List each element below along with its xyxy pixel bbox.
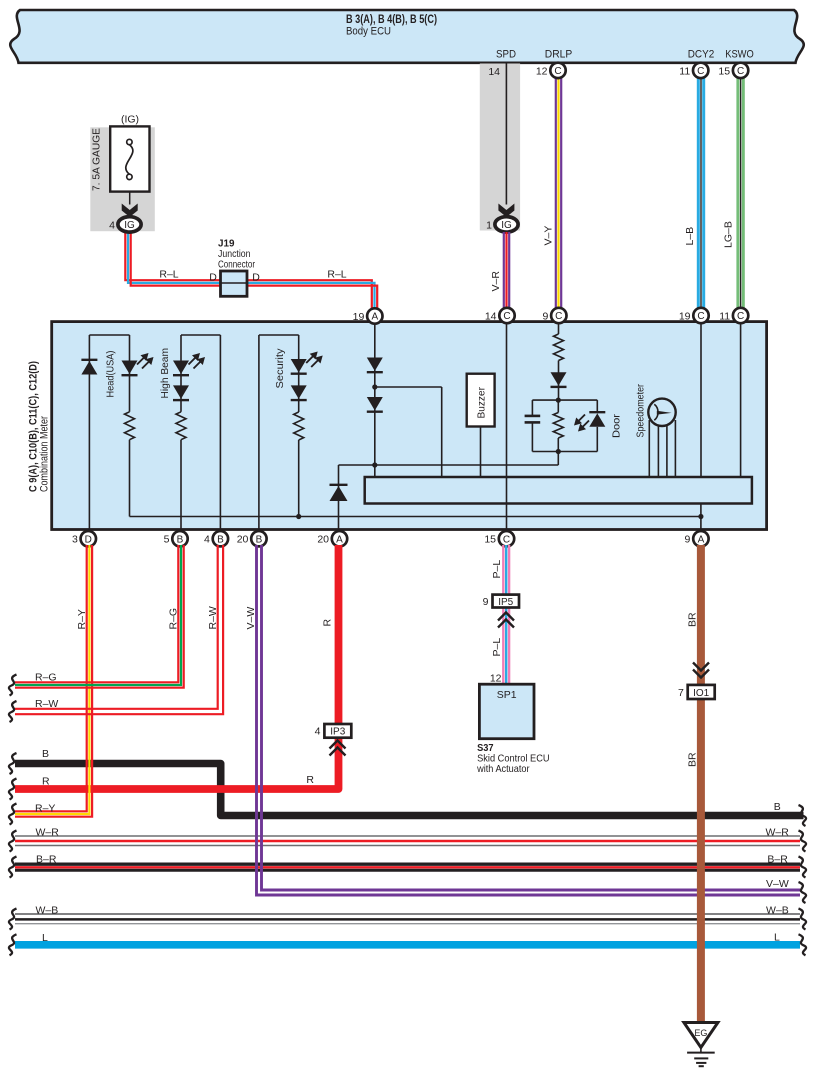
LED High Beam <box>159 348 205 399</box>
svg-text:R: R <box>322 619 334 627</box>
capacitor (door circuit) <box>525 416 541 423</box>
svg-text:L: L <box>774 932 780 944</box>
svg-text:D: D <box>252 272 260 284</box>
svg-text:20: 20 <box>237 534 249 546</box>
label R-Y vertical <box>76 609 88 629</box>
S37 Skid Control ECU box SP1 <box>476 684 549 775</box>
label W-R right <box>765 827 789 839</box>
svg-text:R–Y: R–Y <box>76 609 88 629</box>
bus R (thick red) + wire R to pin 20A <box>15 545 339 789</box>
svg-text:IO1: IO1 <box>693 688 710 699</box>
svg-text:A: A <box>336 534 343 545</box>
svg-text:1: 1 <box>486 220 492 232</box>
svg-text:C: C <box>697 311 704 322</box>
svg-text:7: 7 <box>678 687 684 699</box>
label V-W right <box>766 878 789 890</box>
svg-text:C: C <box>503 534 510 545</box>
svg-text:9: 9 <box>542 311 548 323</box>
svg-text:Body ECU: Body ECU <box>346 26 391 38</box>
diode D1 under 19A <box>367 358 383 373</box>
svg-text:3: 3 <box>72 534 78 546</box>
wire R-Y pin 3D to left edge <box>15 545 92 817</box>
wire R-L fuse to J19 to pin 19A <box>125 231 377 316</box>
svg-text:B: B <box>177 534 184 545</box>
svg-text:LG–B: LG–B <box>723 221 735 248</box>
svg-text:V–R: V–R <box>490 271 502 292</box>
label P-L lower <box>491 638 503 657</box>
top rail security group <box>259 334 299 336</box>
wire V-W pin 20B to right edge <box>257 545 801 895</box>
fuse 7.5A GAUGE block <box>90 114 155 232</box>
svg-text:SP1: SP1 <box>497 689 517 701</box>
svg-text:Connector: Connector <box>218 259 255 271</box>
connector pin 4 IG (fuse) <box>109 217 141 232</box>
wire: 9C chain <box>557 322 559 465</box>
svg-text:V–Y: V–Y <box>543 226 555 246</box>
svg-text:SPD: SPD <box>496 49 516 61</box>
svg-text:Head(USA): Head(USA) <box>105 351 117 398</box>
connector IO1 with arrow <box>678 663 715 700</box>
label R left <box>42 776 50 788</box>
pin 3 D (meter bottom) <box>72 531 96 546</box>
ground EG <box>684 1023 718 1067</box>
internal bus bar rectangle <box>365 477 752 504</box>
label BR lower <box>687 752 699 767</box>
LED Door with arrows <box>574 412 623 438</box>
svg-text:R: R <box>306 774 314 786</box>
label R-G vertical <box>168 608 180 630</box>
top rail head group <box>89 334 129 336</box>
label W-R left <box>36 827 60 839</box>
svg-text:BR: BR <box>687 612 699 627</box>
pin 15 C (meter bottom) <box>484 531 514 546</box>
pin 11 C (meter top) <box>719 308 748 323</box>
pin 19 C (meter top) <box>679 308 709 323</box>
door parallel network <box>532 398 597 455</box>
connector IP3 with arrow <box>315 724 352 756</box>
wire L-B (DCY2 11C to 19C) <box>684 76 704 310</box>
wire R-G pin 5B to left edge <box>15 545 184 688</box>
svg-text:B–R: B–R <box>767 853 788 865</box>
torn edge V-W right <box>799 882 807 903</box>
svg-text:EG: EG <box>694 1028 707 1038</box>
label R-G left <box>35 671 57 683</box>
svg-text:B: B <box>42 748 49 760</box>
diode 2 high beam <box>173 385 189 400</box>
svg-text:20: 20 <box>317 534 329 546</box>
wire: pin 20B vertical <box>258 335 260 531</box>
svg-text:(IG): (IG) <box>121 114 139 126</box>
torn edge W-R right <box>799 831 807 852</box>
svg-text:R–W: R–W <box>207 606 219 629</box>
diode at pin 20A <box>330 485 348 501</box>
torn edge B left <box>9 753 17 774</box>
svg-text:B: B <box>217 534 224 545</box>
diode D2 under 19A <box>367 397 383 412</box>
svg-text:7. 5A GAUGE: 7. 5A GAUGE <box>91 128 103 191</box>
wire R-W pin 4B to left edge <box>15 545 223 714</box>
SPD shield gray column <box>480 64 520 231</box>
svg-text:B: B <box>774 801 781 813</box>
svg-text:L: L <box>42 932 48 944</box>
wire: high beam chain (pin 5B) <box>180 335 182 531</box>
label B left <box>42 748 49 760</box>
svg-text:5: 5 <box>164 534 170 546</box>
torn edge L right <box>799 934 807 955</box>
label R-Y left <box>35 802 55 814</box>
label B-R right <box>767 853 788 865</box>
top rail high-beam group <box>181 334 220 336</box>
svg-text:A: A <box>698 534 705 545</box>
svg-text:C: C <box>503 311 510 322</box>
svg-text:9: 9 <box>483 596 489 608</box>
svg-text:W–R: W–R <box>765 827 789 839</box>
bottom rail inside meter <box>130 514 704 519</box>
svg-text:Security: Security <box>274 348 286 389</box>
torn edge R-Y left <box>9 804 17 825</box>
svg-text:P–L: P–L <box>491 560 503 579</box>
node 12 label <box>490 673 502 685</box>
label L left <box>42 932 48 944</box>
wire: security chain <box>298 335 300 517</box>
torn edge B right <box>799 805 807 826</box>
svg-text:IP5: IP5 <box>498 597 513 608</box>
wire: head LED chain <box>129 335 131 517</box>
svg-text:15: 15 <box>718 65 730 77</box>
wire LG-B (KSWO 15C to 11C) <box>723 76 744 310</box>
bus B (thick black) <box>15 764 804 816</box>
svg-text:C: C <box>697 66 704 77</box>
label BR upper <box>687 612 699 627</box>
resistor security <box>294 412 304 440</box>
svg-text:12: 12 <box>490 673 502 685</box>
svg-text:12: 12 <box>536 65 548 77</box>
LED Security <box>274 348 323 389</box>
label R-W left <box>35 698 58 710</box>
svg-text:V–W: V–W <box>766 878 789 890</box>
bus W-B <box>15 914 800 924</box>
svg-text:C: C <box>555 311 562 322</box>
svg-text:IP3: IP3 <box>330 727 345 738</box>
pin 19 A (meter top) <box>353 308 383 323</box>
svg-text:19: 19 <box>679 311 691 323</box>
svg-text:R–W: R–W <box>35 698 58 710</box>
wire: 19C vertical <box>700 322 702 477</box>
svg-text:D: D <box>209 272 217 284</box>
svg-text:C: C <box>737 66 744 77</box>
label R at bus corner <box>306 774 314 786</box>
pin 20 B (meter bottom) <box>237 531 267 546</box>
resistor under 9C <box>554 334 564 361</box>
svg-text:R–G: R–G <box>168 608 180 630</box>
wire P-L pin 15C to SP1 <box>503 545 509 684</box>
svg-text:Buzzer: Buzzer <box>476 387 488 419</box>
pin 15 C (KSWO) <box>718 63 748 78</box>
speedometer <box>635 384 676 477</box>
svg-text:L–B: L–B <box>684 227 696 246</box>
pin 12 C (DRLP) <box>536 63 566 78</box>
svg-text:19: 19 <box>353 311 365 323</box>
wire: 11C vertical <box>740 322 742 477</box>
svg-text:V–W: V–W <box>245 607 257 630</box>
svg-text:C: C <box>554 66 561 77</box>
svg-text:R–G: R–G <box>35 671 57 683</box>
svg-text:B–R: B–R <box>36 853 57 865</box>
wire: pin 19A diode chain <box>372 322 377 477</box>
svg-text:High Beam: High Beam <box>159 348 171 399</box>
branch 19A to bus bar <box>375 387 442 477</box>
pin 9 A (meter bottom) <box>685 531 709 546</box>
svg-text:B: B <box>256 534 263 545</box>
svg-text:IG: IG <box>501 220 512 231</box>
torn edge L left <box>9 934 17 955</box>
svg-text:4: 4 <box>109 220 115 232</box>
svg-text:9: 9 <box>685 534 691 546</box>
bus B-R <box>15 864 800 870</box>
wire: 9A vertical <box>700 504 702 532</box>
wire V-Y (DRLP 12C to 9C) <box>543 76 562 310</box>
label R vertical <box>322 619 334 627</box>
svg-text:Speedometer: Speedometer <box>635 384 647 438</box>
connector IP5 with arrow <box>483 595 519 628</box>
svg-text:B 3(A), B 4(B), B 5(C): B 3(A), B 4(B), B 5(C) <box>346 14 437 26</box>
wire: pin 20A with diode up <box>338 465 340 531</box>
label P-L upper <box>491 560 503 579</box>
torn edge W-B right <box>799 909 807 930</box>
torn edge B-R left <box>9 857 17 878</box>
svg-text:C: C <box>737 311 744 322</box>
svg-text:Door: Door <box>611 413 623 438</box>
horizontal link 20A-door <box>339 462 559 467</box>
svg-text:P–L: P–L <box>491 638 503 657</box>
label R-W vertical <box>207 606 219 629</box>
svg-text:W–B: W–B <box>36 905 59 917</box>
diode 2 security <box>291 385 307 400</box>
pin 20 A (meter bottom) <box>317 531 347 546</box>
wire BR pin 9A to EG ground <box>697 545 705 1022</box>
svg-text:DCY2: DCY2 <box>688 49 715 61</box>
wire: pin 3D vertical with diode up <box>88 335 90 531</box>
svg-text:11: 11 <box>679 65 690 77</box>
svg-text:R–Y: R–Y <box>35 802 55 814</box>
resistor (door circuit) <box>553 413 563 439</box>
bus W-R <box>15 836 800 846</box>
Body ECU band B3/B4/B5 <box>10 10 803 63</box>
svg-text:4: 4 <box>315 726 321 738</box>
torn edge W-R left <box>9 831 17 852</box>
svg-text:R–L: R–L <box>159 269 178 281</box>
svg-text:4: 4 <box>204 534 210 546</box>
svg-text:BR: BR <box>687 752 699 767</box>
label V-W vertical <box>245 607 257 630</box>
combination meter box C9/C10/C11/C12 <box>28 322 767 530</box>
svg-text:A: A <box>371 312 378 323</box>
torn edge R-W left <box>9 701 17 722</box>
svg-text:IG: IG <box>124 220 135 231</box>
label B right <box>774 801 781 813</box>
SPD wire with arrow to 1 IG <box>486 64 518 233</box>
resistor head chain <box>125 412 135 440</box>
svg-text:Combination Meter: Combination Meter <box>39 416 51 492</box>
torn edge W-B left <box>9 909 17 930</box>
svg-text:14: 14 <box>485 311 497 323</box>
label L right <box>774 932 780 944</box>
torn edge B-R right <box>799 857 807 878</box>
pin 4 B (meter bottom) <box>204 531 228 546</box>
svg-text:D: D <box>85 534 92 545</box>
buzzer <box>467 374 495 477</box>
svg-text:R–L: R–L <box>327 269 346 281</box>
pin 11 C (DCY2) <box>679 63 708 78</box>
svg-text:R: R <box>42 776 50 788</box>
wire: pin 4B vertical <box>219 335 221 531</box>
label W-B right <box>766 905 789 917</box>
svg-text:15: 15 <box>484 534 496 546</box>
svg-text:14: 14 <box>488 66 500 78</box>
bus L (thick cyan) <box>15 941 800 949</box>
diode under 9C <box>551 372 567 387</box>
svg-text:W–R: W–R <box>36 827 60 839</box>
svg-text:DRLP: DRLP <box>545 49 573 61</box>
torn edge R left <box>9 779 17 800</box>
diode at pin 3D <box>81 360 97 375</box>
resistor high beam <box>176 412 186 440</box>
wire: 14C-15C vertical <box>506 322 508 531</box>
label W-B left <box>36 905 59 917</box>
svg-text:11: 11 <box>719 311 730 323</box>
junction connector J19 <box>209 238 260 297</box>
LED Head(USA) <box>105 351 154 398</box>
wire V-R (IG to pin 14C) <box>490 232 509 310</box>
svg-text:W–B: W–B <box>766 905 789 917</box>
pin 9 C (meter top) <box>542 308 566 323</box>
torn edge R-G left <box>9 675 17 696</box>
svg-text:KSWO: KSWO <box>725 49 754 61</box>
pin 14 C (meter top) <box>485 308 515 323</box>
label B-R left <box>36 853 57 865</box>
pin 5 B (meter bottom) <box>164 531 188 546</box>
svg-text:with Actuator: with Actuator <box>476 763 530 775</box>
